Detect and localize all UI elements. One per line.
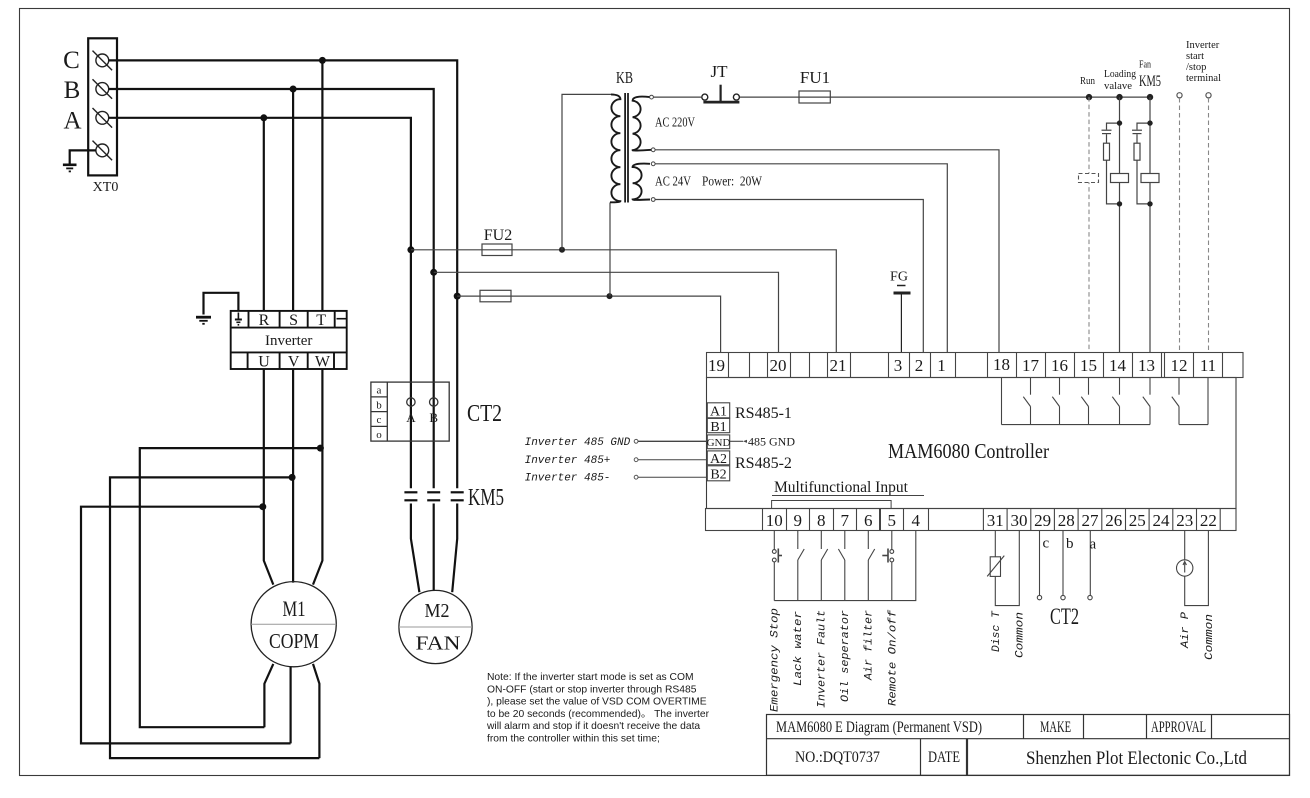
svg-text:R: R bbox=[259, 312, 270, 329]
svg-text:21: 21 bbox=[830, 356, 847, 375]
CT2 sensor A bbox=[407, 398, 415, 406]
fan KM5 branch bbox=[1132, 97, 1159, 352]
wire delta loop V1-W2 bbox=[110, 477, 319, 758]
svg-text:KM5: KM5 bbox=[1139, 73, 1161, 90]
svg-text:ON-OFF (start or stop inverter: ON-OFF (start or stop inverter through R… bbox=[487, 684, 697, 695]
svg-text:Oil seperator: Oil seperator bbox=[840, 610, 852, 702]
relay contact 13 bbox=[1143, 378, 1150, 425]
svg-text:APPROVAL: APPROVAL bbox=[1151, 719, 1206, 736]
relay contact 12 bbox=[1172, 378, 1179, 425]
svg-text:17: 17 bbox=[1022, 356, 1040, 375]
node U1 bbox=[259, 503, 266, 510]
transformer KB secondary 220V bbox=[633, 97, 652, 151]
transformer KB primary bbox=[610, 94, 620, 202]
svg-text:8: 8 bbox=[817, 511, 826, 530]
svg-text:JT: JT bbox=[711, 62, 729, 81]
node Run tap bbox=[1086, 94, 1092, 100]
svg-text:485 GND: 485 GND bbox=[748, 435, 795, 449]
inverter minus pin bbox=[337, 318, 347, 320]
top terminal numbers bbox=[708, 355, 1216, 375]
XT0 terminal screws bbox=[93, 51, 113, 161]
wire primary return bbox=[609, 203, 611, 297]
wire inverter 485 gnd bbox=[634, 439, 638, 443]
svg-text:COPM: COPM bbox=[269, 629, 319, 653]
svg-text:22: 22 bbox=[1200, 511, 1217, 530]
svg-text:7: 7 bbox=[841, 511, 850, 530]
svg-text:Note: If the inverter start mo: Note: If the inverter start mode is set … bbox=[487, 672, 694, 683]
node primary top junction bbox=[559, 247, 565, 253]
inverter ground pin bbox=[235, 313, 242, 325]
transformer KB core bbox=[624, 93, 626, 203]
ground FG bbox=[894, 286, 911, 353]
inverter start terminal B bbox=[1206, 93, 1211, 98]
svg-text:14: 14 bbox=[1109, 356, 1127, 375]
svg-text:/stop: /stop bbox=[1186, 62, 1206, 73]
node B-20 junction bbox=[430, 269, 437, 276]
svg-text:16: 16 bbox=[1051, 356, 1068, 375]
relay output common 11 bbox=[1207, 378, 1209, 425]
svg-text:AC 24V: AC 24V bbox=[655, 174, 691, 189]
transformer KB secondary 24V bbox=[633, 164, 650, 200]
wire Run dashed to terminal 15 bbox=[1088, 97, 1090, 352]
wire line 2 to terminal 20 bbox=[434, 272, 779, 352]
wire delta loop U1-V2 bbox=[81, 507, 291, 744]
svg-text:Multifunctional Input: Multifunctional Input bbox=[774, 479, 909, 496]
oil seperator switch (7) bbox=[838, 530, 844, 600]
wire T drop bbox=[321, 60, 323, 311]
svg-text:9: 9 bbox=[794, 511, 803, 530]
svg-text:25: 25 bbox=[1129, 511, 1146, 530]
relay contact 15 bbox=[1081, 378, 1088, 425]
svg-text:11: 11 bbox=[1200, 356, 1216, 375]
contactor KM5 pole A bbox=[404, 492, 417, 500]
svg-text:A1: A1 bbox=[710, 405, 727, 420]
svg-text:to be 20 seconds (recommended): to be 20 seconds (recommended)。 The inve… bbox=[487, 709, 710, 720]
svg-text:15: 15 bbox=[1080, 356, 1097, 375]
svg-text:terminal: terminal bbox=[1186, 73, 1221, 84]
svg-text:Loading: Loading bbox=[1104, 68, 1136, 80]
svg-text:12: 12 bbox=[1171, 356, 1188, 375]
optional run contact dashed box bbox=[1079, 174, 1099, 183]
multifunctional input bracket bbox=[772, 501, 892, 509]
svg-text:T: T bbox=[316, 312, 326, 329]
svg-text:18: 18 bbox=[993, 355, 1010, 374]
controller top terminal row bbox=[707, 353, 1244, 378]
relay contact 14 bbox=[1112, 378, 1119, 425]
svg-text:W: W bbox=[315, 354, 331, 371]
svg-text:XT0: XT0 bbox=[93, 180, 119, 195]
wire primary feed bbox=[562, 94, 612, 249]
inverter start terminal A bbox=[1177, 93, 1182, 98]
svg-text:A: A bbox=[63, 108, 81, 135]
RS485 terminal cells bbox=[707, 403, 729, 481]
svg-text:Inverter: Inverter bbox=[265, 333, 312, 349]
svg-text:5: 5 bbox=[888, 511, 897, 530]
RS485 pin labels bbox=[707, 405, 731, 483]
wire phase A bbox=[109, 118, 411, 489]
phase labels C B A bbox=[63, 47, 81, 135]
svg-text:Lack water: Lack water bbox=[793, 611, 805, 686]
node primary bottom junction bbox=[607, 293, 613, 299]
svg-text:Inverter Fault: Inverter Fault bbox=[817, 610, 829, 708]
svg-text:FG: FG bbox=[890, 270, 908, 285]
svg-text:start: start bbox=[1186, 51, 1204, 62]
svg-text:GND: GND bbox=[707, 437, 731, 449]
svg-text:13: 13 bbox=[1138, 356, 1155, 375]
svg-text:3: 3 bbox=[894, 356, 903, 375]
node loading valve bottom bbox=[1117, 201, 1122, 206]
fuse FU1 bbox=[799, 91, 830, 103]
svg-text:B2: B2 bbox=[710, 468, 726, 483]
transformer secondary terminals bbox=[650, 95, 656, 201]
note text bbox=[486, 672, 710, 745]
wire delta loop W1-U2 bbox=[140, 448, 321, 727]
CT2 pin labels a b c o bbox=[376, 385, 382, 441]
relay contact 16 bbox=[1052, 378, 1059, 425]
current transformer CT2 box bbox=[371, 382, 449, 441]
air pressure sensor bbox=[1177, 530, 1209, 605]
motor M1 bbox=[251, 582, 336, 667]
pushbutton JT bbox=[702, 85, 740, 102]
node loading valve tap bbox=[1116, 94, 1122, 100]
title block bbox=[767, 715, 1290, 776]
air filter switch (6) bbox=[868, 530, 874, 600]
wire relay bus A bbox=[1002, 424, 1151, 426]
svg-text:CT2: CT2 bbox=[467, 401, 502, 427]
svg-text:), please set the value of VSD: ), please set the value of VSD COM OVERT… bbox=[487, 697, 707, 708]
wire inverter 485 plus bbox=[634, 458, 638, 462]
contactor KM5 pole B bbox=[427, 492, 440, 500]
wire R drop bbox=[263, 118, 265, 311]
node V1 bbox=[289, 474, 296, 481]
CT2 wire b bbox=[1061, 531, 1065, 600]
wire AC220V hot to JT bbox=[653, 96, 701, 98]
svg-text:RS485-2: RS485-2 bbox=[735, 455, 792, 472]
wire phase B bbox=[109, 89, 434, 488]
node fan top bbox=[1147, 120, 1152, 125]
svg-text:10: 10 bbox=[766, 511, 783, 530]
wire S drop bbox=[292, 89, 294, 311]
wire FU1 to KM5 coil line bbox=[830, 96, 1150, 98]
ground at inverter bbox=[196, 293, 238, 324]
svg-text:b: b bbox=[376, 399, 382, 411]
node W1 bbox=[317, 445, 324, 452]
motor M1 bottom leads bbox=[264, 664, 319, 758]
svg-text:FU1: FU1 bbox=[800, 68, 830, 87]
svg-text:Inverter: Inverter bbox=[1186, 40, 1220, 51]
relay contact 17 bbox=[1023, 378, 1030, 425]
svg-text:28: 28 bbox=[1058, 511, 1075, 530]
svg-text:A2: A2 bbox=[710, 452, 727, 467]
svg-text:Air P: Air P bbox=[1180, 612, 1192, 649]
relay output common 18 bbox=[1001, 378, 1003, 425]
wire dashed to terminal 12 bbox=[1179, 98, 1181, 353]
svg-text:will alarm and stop if it does: will alarm and stop if it doesn't receiv… bbox=[486, 721, 700, 732]
CT2 wire c bbox=[1037, 531, 1041, 600]
svg-text:c: c bbox=[1043, 536, 1050, 552]
svg-text:Emergency Stop: Emergency Stop bbox=[770, 608, 782, 712]
svg-text:Disc T: Disc T bbox=[991, 610, 1003, 652]
svg-text:Common: Common bbox=[1015, 612, 1027, 658]
svg-text:24: 24 bbox=[1153, 511, 1171, 530]
svg-text:Power: 20W: Power: 20W bbox=[702, 174, 762, 189]
wire JT to FU1 bbox=[740, 96, 799, 98]
svg-text:26: 26 bbox=[1105, 511, 1122, 530]
ground at XT0 bbox=[63, 150, 96, 171]
MAM6080 controller body bbox=[707, 378, 1237, 509]
contactor KM5 pole C bbox=[451, 492, 464, 500]
wire relay bus B bbox=[1179, 424, 1208, 426]
svg-text:19: 19 bbox=[708, 356, 725, 375]
svg-text:MAM6080 Controller: MAM6080 Controller bbox=[888, 439, 1049, 463]
svg-text:from the controller within thi: from the controller within this set time… bbox=[487, 734, 660, 745]
CT2 sensor B bbox=[430, 398, 438, 406]
svg-text:M1: M1 bbox=[283, 596, 306, 621]
svg-text:a: a bbox=[1090, 537, 1097, 553]
wire AC24V hot to terminal 1 bbox=[655, 164, 947, 353]
svg-text:FAN: FAN bbox=[416, 633, 461, 655]
wire W drop bbox=[313, 369, 322, 585]
fuse FU2b bbox=[480, 290, 511, 302]
svg-text:AC 220V: AC 220V bbox=[655, 115, 695, 130]
svg-text:M2: M2 bbox=[425, 600, 450, 622]
inverter U1 box bbox=[231, 311, 347, 369]
svg-text:U: U bbox=[258, 354, 270, 371]
svg-text:C: C bbox=[63, 47, 80, 74]
485 GND arrow label bbox=[730, 440, 743, 442]
Inverter start stop terminal label bbox=[1186, 40, 1221, 84]
lack water switch (9) bbox=[798, 530, 804, 600]
svg-text:B: B bbox=[64, 77, 81, 104]
svg-text:Remote On/off: Remote On/off bbox=[888, 609, 900, 706]
svg-text:6: 6 bbox=[864, 511, 873, 530]
wire FU2 line 1 to terminal 21 bbox=[411, 250, 836, 353]
svg-text:1: 1 bbox=[937, 356, 946, 375]
svg-text:MAM6080 E Diagram (Permanent V: MAM6080 E Diagram (Permanent VSD) bbox=[776, 719, 982, 736]
svg-text:31: 31 bbox=[987, 511, 1004, 530]
svg-text:A: A bbox=[406, 410, 416, 425]
wire inverter 485 minus bbox=[634, 475, 638, 479]
node fan bottom bbox=[1147, 201, 1152, 206]
remote on-off switch (5) bbox=[882, 530, 893, 600]
fuse FU2a bbox=[482, 244, 512, 256]
loading valve branch bbox=[1102, 97, 1129, 352]
svg-text:Shenzhen Plot Electonic Co.,Lt: Shenzhen Plot Electonic Co.,Ltd bbox=[1026, 748, 1247, 769]
node A-FU2 junction bbox=[407, 246, 414, 253]
controller bottom terminal row bbox=[706, 509, 1237, 531]
svg-text:30: 30 bbox=[1011, 511, 1028, 530]
wire AC24V return to terminal 2 bbox=[655, 200, 923, 353]
svg-text:Inverter 485-: Inverter 485- bbox=[525, 473, 611, 485]
svg-text:a: a bbox=[377, 385, 382, 397]
node loading valve top bbox=[1117, 120, 1122, 125]
svg-text:KB: KB bbox=[616, 68, 633, 87]
svg-text:Common: Common bbox=[1204, 614, 1216, 660]
inverter fault switch (8) bbox=[821, 530, 827, 600]
svg-text:V: V bbox=[288, 354, 300, 371]
svg-text:DATE: DATE bbox=[928, 749, 960, 766]
svg-text:Inverter 485 GND: Inverter 485 GND bbox=[525, 437, 631, 449]
inverter terminal labels bbox=[258, 312, 331, 371]
wire AC220V return to terminal 18 bbox=[655, 150, 999, 353]
svg-text:2: 2 bbox=[915, 356, 924, 375]
wire phase C bbox=[109, 60, 458, 488]
svg-text:Inverter 485+: Inverter 485+ bbox=[525, 455, 611, 467]
svg-text:KM5: KM5 bbox=[468, 485, 504, 511]
svg-text:20: 20 bbox=[770, 356, 787, 375]
svg-text:c: c bbox=[377, 414, 382, 426]
svg-text:S: S bbox=[289, 312, 298, 329]
svg-text:CT2: CT2 bbox=[1050, 604, 1079, 629]
svg-text:Air filter: Air filter bbox=[864, 610, 876, 681]
node A-R junction bbox=[260, 114, 267, 121]
svg-text:Fan: Fan bbox=[1139, 59, 1151, 71]
svg-text:Run: Run bbox=[1080, 75, 1095, 87]
node C-FU2 junction bbox=[454, 293, 461, 300]
wire input common bus to 4 bbox=[774, 530, 916, 600]
wire V drop bbox=[292, 369, 294, 583]
terminal block XT0 bbox=[88, 38, 117, 175]
svg-text:b: b bbox=[1066, 536, 1074, 552]
wire U drop bbox=[264, 369, 274, 585]
svg-text:RS485-1: RS485-1 bbox=[735, 405, 792, 422]
svg-text:4: 4 bbox=[912, 511, 921, 530]
thermistor disc T bbox=[987, 530, 1019, 605]
svg-text:27: 27 bbox=[1082, 511, 1100, 530]
svg-text:23: 23 bbox=[1176, 511, 1193, 530]
svg-text:MAKE: MAKE bbox=[1040, 719, 1071, 736]
node fan KM5 tap bbox=[1147, 94, 1153, 100]
wire KM5 to M2 leads bbox=[411, 504, 457, 593]
node C-T junction bbox=[319, 57, 326, 64]
svg-text:valave: valave bbox=[1104, 80, 1132, 92]
node B-S junction bbox=[290, 86, 297, 93]
svg-text:29: 29 bbox=[1034, 511, 1051, 530]
fan motor M2 bbox=[399, 590, 472, 663]
CT2 wire a bbox=[1088, 531, 1092, 600]
svg-text:NO.:DQT0737: NO.:DQT0737 bbox=[795, 749, 880, 766]
svg-text:B1: B1 bbox=[710, 420, 726, 435]
svg-text:B: B bbox=[429, 410, 438, 425]
bottom terminal numbers bbox=[766, 511, 1217, 530]
wire dashed to terminal 11 bbox=[1208, 98, 1210, 353]
wire FU2 line 3 to terminal 19 bbox=[457, 296, 720, 352]
svg-text:o: o bbox=[376, 429, 382, 441]
emergency stop switch (10) bbox=[772, 530, 782, 600]
svg-text:FU2: FU2 bbox=[484, 227, 512, 244]
